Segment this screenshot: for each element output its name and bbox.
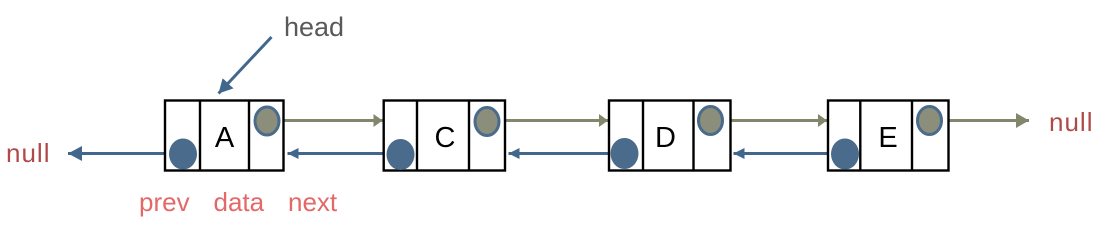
svg-text:head: head: [284, 12, 344, 42]
wire: prev pointer D -> C (blue arrow): [509, 152, 625, 155]
node C box: [384, 101, 505, 171]
svg-text:next: next: [288, 187, 338, 217]
wire: prev pointer of node A to null (left arrow): [68, 152, 183, 155]
head pointer arrow: [219, 37, 272, 94]
node D box: [609, 101, 731, 171]
null label (left): [6, 138, 50, 168]
svg-text:null: null: [6, 138, 50, 168]
field labels prev / data / next: [139, 187, 338, 217]
wire: prev pointer E -> D (blue arrow): [734, 152, 846, 155]
svg-text:prev: prev: [139, 187, 190, 217]
node A next pointer dot (olive): [255, 107, 279, 135]
node C prev pointer dot (blue): [387, 139, 415, 170]
null label (right): [1049, 107, 1093, 137]
svg-text:D: D: [655, 122, 676, 154]
svg-text:data: data: [214, 187, 265, 217]
node D prev pointer dot (blue): [611, 138, 639, 169]
wire: next pointer A -> C (olive arrow): [267, 119, 383, 122]
node D next pointer dot (olive): [699, 107, 723, 135]
wire: next pointer D -> E (olive arrow): [711, 119, 828, 122]
node A box: [165, 101, 284, 171]
head label: [284, 12, 344, 42]
wire: next pointer C -> D (olive arrow): [487, 119, 608, 122]
wire: next pointer of node E to null (right olive arrow): [930, 119, 1030, 122]
node E box: [828, 101, 949, 171]
node C next pointer dot (olive): [475, 108, 499, 136]
svg-text:null: null: [1049, 107, 1093, 137]
node E prev pointer dot (blue): [831, 139, 859, 170]
svg-text:C: C: [435, 122, 456, 154]
wire: prev pointer C -> A (blue arrow): [288, 152, 401, 155]
node A prev pointer dot (blue): [169, 139, 197, 170]
node E next pointer dot (olive): [918, 107, 942, 135]
svg-text:A: A: [215, 122, 235, 154]
svg-text:E: E: [878, 122, 897, 154]
